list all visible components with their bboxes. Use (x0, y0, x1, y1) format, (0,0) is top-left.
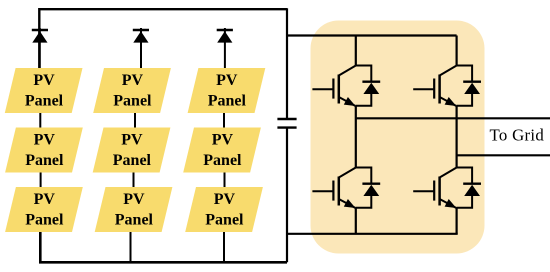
collector/emitter body bar (438, 177, 441, 206)
collector bend (339, 168, 356, 178)
gate lead (312, 88, 333, 90)
freewheeling diode branch wire (356, 66, 372, 106)
PV panel 9 (string 3, row 3) (185, 187, 263, 232)
svg-text:Panel: Panel (115, 211, 154, 228)
PV panel 8 (string 3, row 2) (183, 128, 261, 173)
freewheeling diode cathode bar (463, 182, 481, 184)
PV panel 7 (string 3, row 1) (188, 68, 266, 113)
svg-text:PV: PV (34, 191, 56, 208)
IGBT Q1 (top left) (312, 66, 380, 107)
blocking diode D3 (217, 30, 233, 43)
freewheeling diode branch wire (457, 168, 473, 208)
IGBT Q3 (bottom left) (312, 168, 380, 209)
PV panel 3 (string 1, row 3) (5, 187, 83, 232)
gate bar (332, 181, 334, 201)
svg-text:Panel: Panel (208, 92, 247, 109)
capacitor C1 (277, 119, 296, 128)
svg-text:PV: PV (122, 72, 144, 89)
collector/emitter body bar (438, 75, 441, 104)
collector/emitter body bar (338, 177, 341, 206)
freewheeling diode triangle (464, 185, 480, 196)
gate lead (413, 88, 434, 90)
emitter line with arrow (339, 199, 356, 208)
inverter enclosure (311, 21, 485, 254)
collector/emitter body bar (338, 75, 341, 104)
PV panel 4 (string 2, row 1) (93, 68, 171, 113)
collector bend (440, 168, 457, 178)
DC link negative wire (286, 128, 288, 263)
svg-text:Panel: Panel (25, 92, 64, 109)
collector bend (440, 66, 457, 76)
blocking diode D1 (32, 30, 48, 43)
freewheeling diode branch wire (356, 168, 372, 208)
svg-text:PV: PV (123, 191, 145, 208)
emitter line with arrow (440, 97, 457, 106)
string 3 wire segments (223, 28, 226, 262)
string 2 wire segments (131, 28, 142, 262)
svg-text:Panel: Panel (203, 152, 242, 169)
freewheeling diode branch wire (457, 66, 473, 106)
collector bend (339, 66, 356, 76)
freewheeling diode triangle (363, 83, 379, 94)
bottom bus wire (40, 232, 287, 262)
freewheeling diode cathode bar (362, 80, 380, 82)
svg-text:PV: PV (121, 132, 143, 149)
freewheeling diode cathode bar (362, 182, 380, 184)
svg-text:PV: PV (214, 191, 236, 208)
grid output line A (356, 117, 550, 119)
svg-text:PV: PV (33, 72, 55, 89)
svg-text:Panel: Panel (113, 92, 152, 109)
IGBT Q2 (top right) (413, 66, 481, 107)
svg-text:Panel: Panel (205, 211, 244, 228)
gate bar (332, 79, 334, 99)
gate bar (433, 181, 435, 201)
IGBT Q4 (bottom right) (413, 168, 481, 209)
svg-text:To Grid: To Grid (490, 126, 545, 145)
gate lead (312, 190, 333, 192)
emitter line with arrow (440, 199, 457, 208)
PV panel 1 (string 1, row 1) (5, 68, 83, 113)
freewheeling diode triangle (464, 83, 480, 94)
svg-text:Panel: Panel (25, 152, 64, 169)
inverter DC+ rail (287, 34, 457, 36)
blocking diode D2 (133, 30, 149, 43)
svg-text:Panel: Panel (113, 152, 152, 169)
PV panel 6 (string 2, row 3) (95, 187, 173, 232)
gate lead (413, 190, 434, 192)
PV panel 2 (string 1, row 2) (5, 128, 83, 173)
grid output line B (457, 154, 550, 156)
left leg wire (355, 36, 357, 234)
svg-text:Panel: Panel (25, 211, 64, 228)
svg-text:PV: PV (216, 72, 238, 89)
inverter DC- rail (287, 233, 458, 235)
svg-text:PV: PV (34, 132, 56, 149)
DC link positive wire (286, 8, 288, 119)
freewheeling diode cathode bar (463, 80, 481, 82)
emitter line with arrow (339, 97, 356, 106)
right leg wire (456, 36, 458, 234)
PV panel 5 (string 2, row 2) (93, 128, 171, 173)
gate bar (433, 79, 435, 99)
svg-text:PV: PV (212, 132, 234, 149)
freewheeling diode triangle (363, 185, 379, 196)
string 1 wire segments (39, 28, 42, 262)
top bus wire (39, 9, 287, 68)
